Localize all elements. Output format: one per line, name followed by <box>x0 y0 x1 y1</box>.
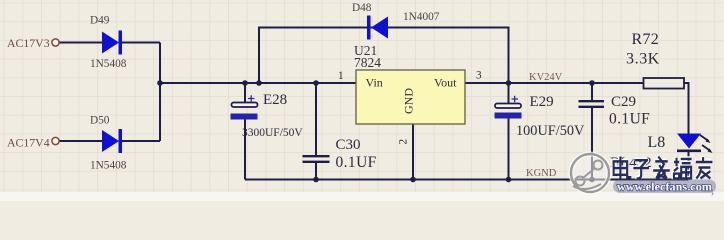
svg-text:7824: 7824 <box>354 55 381 70</box>
svg-text:1N4007: 1N4007 <box>403 11 440 23</box>
svg-text:2: 2 <box>398 139 410 145</box>
svg-text:100UF/50V: 100UF/50V <box>516 123 585 139</box>
svg-text:C30: C30 <box>336 137 361 153</box>
svg-text:AC17V3: AC17V3 <box>7 36 50 50</box>
svg-text:Vout: Vout <box>434 76 457 90</box>
svg-text:3.3K: 3.3K <box>626 51 660 68</box>
svg-text:0.1UF: 0.1UF <box>609 111 650 128</box>
svg-text:KV24V: KV24V <box>529 72 563 83</box>
svg-text:www.elecfans.com: www.elecfans.com <box>617 180 712 194</box>
svg-text:3300UF/50V: 3300UF/50V <box>242 127 303 139</box>
svg-text:D50: D50 <box>90 115 110 127</box>
svg-text:1N5408: 1N5408 <box>90 58 127 70</box>
svg-text:GND: GND <box>402 88 416 114</box>
svg-text:KGND: KGND <box>526 168 557 179</box>
svg-text:AC17V4: AC17V4 <box>7 135 50 149</box>
svg-text:0.1UF: 0.1UF <box>336 154 377 171</box>
svg-text:R72: R72 <box>632 31 660 48</box>
svg-text:D48: D48 <box>352 2 372 14</box>
svg-text:E29: E29 <box>530 94 554 110</box>
svg-text:C29: C29 <box>611 94 636 110</box>
svg-text:L8: L8 <box>648 134 666 151</box>
svg-text:1N5408: 1N5408 <box>90 160 127 172</box>
svg-text:3: 3 <box>476 70 482 82</box>
svg-text:1: 1 <box>338 70 344 82</box>
svg-text:E28: E28 <box>263 92 287 108</box>
svg-text:Vin: Vin <box>366 76 383 90</box>
svg-text:D49: D49 <box>90 15 110 27</box>
